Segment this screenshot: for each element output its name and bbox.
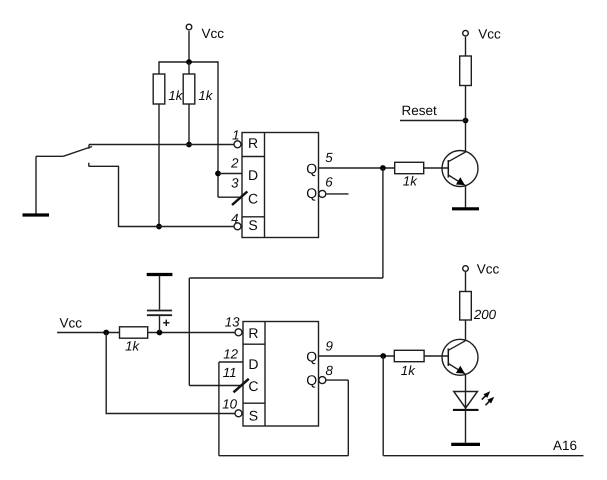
capacitor C1 (147, 275, 173, 333)
wire Q2 output net (319, 355, 395, 357)
wire Q1 feedback to pin 11 C (189, 385, 243, 387)
pin 13 bubble U2 R (235, 329, 242, 336)
svg-text:2: 2 (230, 156, 239, 171)
Vcc terminal (top right) (463, 26, 501, 41)
svg-text:Vcc: Vcc (478, 26, 501, 41)
node Q1 junction (380, 165, 386, 171)
svg-text:A16: A16 (553, 438, 577, 453)
wire LED cathode down (465, 410, 467, 443)
wire pin 8 stub (326, 379, 348, 381)
wire R5 to pin 13 (148, 332, 235, 334)
resistor R2 1k (183, 74, 214, 104)
pin 1 bubble U1 R (234, 141, 241, 148)
wire to R1 top (158, 61, 160, 74)
wire Qbar2 feedback to pin 12 D (219, 361, 243, 363)
transistor Q1 (442, 151, 478, 187)
svg-text:Reset: Reset (402, 103, 438, 118)
pin 6 bubble U1 Qbar (319, 190, 326, 197)
svg-text:1k: 1k (168, 88, 183, 103)
node R2/R junction (186, 142, 192, 148)
svg-text:1k: 1k (403, 174, 418, 189)
wire emitter down (465, 186, 467, 208)
wire to R2 top (188, 62, 190, 74)
svg-text:1k: 1k (125, 339, 140, 354)
svg-text:5: 5 (325, 150, 333, 165)
svg-text:200: 200 (473, 307, 497, 322)
wire R4 to Vcc (465, 37, 467, 56)
svg-text:13: 13 (225, 315, 240, 330)
wire R net to pin 1 (89, 144, 234, 146)
svg-text:Q: Q (306, 185, 317, 201)
node bus junction (186, 59, 192, 65)
svg-text:9: 9 (326, 339, 334, 354)
svg-text:10: 10 (222, 397, 237, 412)
Vcc terminal (bottom right) (463, 261, 500, 276)
svg-text:1k: 1k (198, 88, 213, 103)
svg-text:Vcc: Vcc (60, 315, 83, 330)
resistor R7 200 (460, 292, 497, 322)
wire Q1 feedback across (189, 277, 383, 279)
svg-text:R: R (248, 325, 258, 341)
resistor R3 1k (base of Q1) (395, 162, 424, 188)
flip-flop U1 (242, 133, 319, 238)
wire Vcc1 lead (188, 31, 190, 62)
wire Qbar2 feedback across (219, 455, 348, 457)
svg-text:Q: Q (306, 161, 317, 177)
clock slash U2 (234, 379, 249, 393)
transistor Q2 (442, 339, 478, 375)
svg-text:1k: 1k (401, 363, 416, 378)
svg-text:S: S (248, 217, 257, 233)
wire collector up to R7 (465, 320, 467, 340)
wire collector up (465, 121, 467, 152)
switch SA1 (36, 145, 92, 167)
node R1/S junction (156, 224, 162, 230)
wire Qbar2 feedback up (218, 362, 220, 456)
wire A16 net (383, 455, 583, 457)
svg-text:12: 12 (223, 347, 238, 362)
flip-flop U2 (243, 322, 319, 427)
svg-text:S: S (249, 407, 258, 423)
wire to pin 2 D (218, 173, 242, 175)
resistor R4 (collector pull-up) (460, 56, 472, 86)
wire R7 to Vcc (465, 272, 467, 292)
ground (switch) (23, 213, 50, 216)
svg-text:Q: Q (306, 348, 317, 364)
wire switch throw 2 to S net (89, 166, 234, 226)
node Q2 junction (380, 353, 386, 359)
wire Qbar2 feedback down (347, 380, 349, 456)
wire pin 6 stub (326, 193, 348, 195)
LED light arrows (482, 391, 494, 405)
wire Q1 feedback down left (188, 278, 190, 386)
pin 10 bubble U2 S (235, 410, 242, 417)
wire reset junction to R4 (465, 86, 467, 121)
ground (LED) (451, 443, 480, 446)
wire to pin 10 S (106, 333, 235, 414)
svg-text:11: 11 (223, 365, 237, 380)
wire Q1 feedback down (382, 168, 384, 278)
wire Reset (400, 120, 466, 122)
svg-text:D: D (248, 167, 258, 183)
node Vcc2 junction (103, 330, 109, 336)
pin 8 bubble U2 Qbar (319, 377, 326, 384)
svg-text:1: 1 (232, 128, 239, 143)
svg-text:Q: Q (306, 372, 317, 388)
Vcc terminal (top left) (186, 24, 224, 41)
wire Q1 output net (319, 167, 395, 169)
svg-text:Vcc: Vcc (477, 261, 500, 276)
wire R1 bottom to S net (158, 104, 160, 227)
wire top bus (159, 61, 218, 63)
svg-text:D: D (248, 356, 258, 372)
clock slash U1 (232, 192, 247, 206)
wire switch pole down (35, 156, 37, 213)
wire R6 to base (424, 355, 448, 357)
svg-text:8: 8 (326, 363, 334, 378)
resistor R5 1k (120, 327, 148, 354)
wire Vcc2 net (57, 332, 119, 334)
svg-text:3: 3 (231, 176, 239, 191)
resistor R6 1k (base of Q2) (394, 350, 424, 378)
wire to pin 3 C (218, 196, 242, 198)
wire R2 bottom to R net (188, 104, 190, 145)
ground (Q1 emitter) (452, 207, 479, 210)
svg-text:Vcc: Vcc (202, 26, 225, 41)
wire bus to D/C inputs (217, 61, 219, 197)
wire emitter to LED (465, 375, 467, 410)
node Reset junction (463, 118, 469, 124)
wire R3 to base (424, 167, 449, 169)
svg-text:6: 6 (325, 174, 333, 189)
LED D1 (453, 392, 479, 410)
resistor R1 1k (153, 74, 184, 104)
pin 4 bubble U1 S (234, 223, 241, 230)
svg-text:R: R (248, 135, 258, 151)
wire A16 vertical (382, 356, 384, 456)
node cap junction (157, 330, 163, 336)
svg-text:C: C (248, 191, 258, 207)
node D branch junction (215, 171, 221, 177)
svg-text:4: 4 (231, 211, 238, 226)
svg-text:C: C (248, 378, 258, 394)
